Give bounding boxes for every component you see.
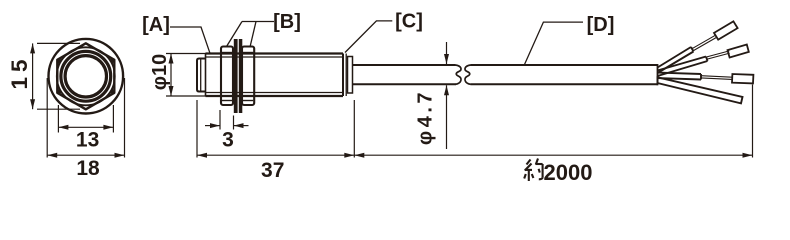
- dim 18 dimension line: [47, 154, 124, 156]
- dim 3 arrow right-pointing: [210, 123, 220, 128]
- dim 15 arrow down: [30, 99, 35, 109]
- dim 2000 arrow right: [743, 153, 753, 158]
- front view barrel ring inner circle: [65, 56, 106, 97]
- dim phi4.7 upper line: [446, 42, 448, 64]
- dim 3 extension lines: [219, 110, 221, 130]
- dim 37 dimension line: [197, 154, 354, 156]
- label B leader horizontal: [242, 21, 274, 23]
- wire 2 insulation: [658, 57, 708, 77]
- dim 13 arrow left: [58, 125, 68, 130]
- label D leader: [525, 22, 584, 64]
- front view barrel ring outer circle: [61, 51, 111, 101]
- wire 2 ferrule: [728, 45, 749, 58]
- wire 4 insulation: [658, 77, 743, 103]
- cable break end curl (segment 1): [456, 65, 462, 84]
- wire 1 conductor: [692, 35, 716, 51]
- svg-text:[D]: [D]: [587, 14, 615, 36]
- dim phi4.7 lower line: [446, 85, 448, 149]
- svg-text:[B]: [B]: [273, 11, 301, 33]
- label B leader 2: [250, 22, 256, 48]
- dim 37 arrow left: [197, 153, 207, 158]
- dim 18 extension lines: [46, 78, 48, 158]
- wire 3 insulation: [658, 73, 702, 80]
- cable segment 1 bottom: [353, 83, 457, 85]
- kanji 約 (approx) hand-drawn: [524, 159, 542, 182]
- label A leader: [170, 27, 210, 53]
- svg-text:2000: 2000: [544, 160, 593, 185]
- svg-text:φ10: φ10: [149, 54, 171, 91]
- dim 13 arrow right: [103, 125, 113, 130]
- label B leader 1: [227, 22, 243, 47]
- dim 15 dimension line: [32, 43, 34, 109]
- dim 13 extension lines: [57, 105, 59, 133]
- dim phi10 extension lines: [166, 53, 206, 55]
- dim phi10 dimension line: [170, 54, 172, 97]
- dim phi4.7 arrow down: [444, 54, 449, 64]
- barrel OD bottom line: [206, 95, 344, 97]
- front view washer inner circle (chamfer circle): [57, 47, 115, 105]
- cable segment 2 bottom: [471, 83, 658, 85]
- front view nut corner chamfer wedges: [57, 59, 114, 94]
- svg-text:13: 13: [76, 129, 99, 152]
- wire 2 conductor: [707, 51, 730, 59]
- dim phi10 arrow up: [169, 54, 174, 64]
- dim phi4.7 arrow up: [444, 85, 449, 95]
- dim 37 / 2000 shared extension line: [353, 100, 355, 158]
- sensor cap (sensing face): [197, 59, 206, 92]
- sensor cap chamfer line: [200, 59, 202, 92]
- dim 15 arrow up: [30, 43, 35, 53]
- cable segment 2 top: [471, 64, 658, 66]
- svg-text:3: 3: [222, 129, 234, 152]
- front view washer outer circle: [49, 39, 124, 114]
- cable break start curl (segment 2): [465, 65, 471, 84]
- barrel right end cap: [342, 54, 344, 97]
- dim 2000 dimension line: [354, 154, 752, 156]
- dim 13 dimension line: [58, 126, 113, 128]
- wire 3 ferrule: [732, 74, 753, 83]
- cable sheath end: [657, 64, 659, 85]
- dim phi10 arrow down: [169, 86, 174, 96]
- dim 18 arrow right: [115, 153, 125, 158]
- barrel OD top line: [206, 52, 344, 54]
- hex nut 2 (side view): [242, 47, 254, 106]
- hex nut 1 (side view): [221, 47, 233, 106]
- dim 3 arrow left-pointing: [234, 123, 244, 128]
- svg-text:φ4.7: φ4.7: [415, 89, 437, 145]
- dim 2000 arrow left: [354, 153, 364, 158]
- svg-text:[C]: [C]: [395, 11, 423, 33]
- svg-text:37: 37: [261, 159, 284, 182]
- toothed washer 1: [234, 40, 237, 113]
- wire 1 insulation: [658, 47, 694, 73]
- svg-text:18: 18: [76, 157, 100, 180]
- dim 3 dimension line right: [234, 125, 249, 127]
- cable gland collar: [348, 57, 353, 94]
- dim 2000 extension line right: [752, 85, 754, 158]
- label C leader: [345, 21, 392, 53]
- barrel thread root top line: [206, 56, 344, 58]
- wire 1 ferrule: [714, 21, 738, 39]
- svg-text:[A]: [A]: [142, 14, 170, 36]
- dim 15 extension lines: [37, 42, 80, 44]
- front view hex nut: [57, 43, 114, 109]
- barrel left end line: [205, 54, 207, 97]
- dim 37 extension line left: [196, 100, 198, 158]
- wire 3 conductor: [701, 76, 732, 80]
- dim 3 dimension line left: [205, 125, 220, 127]
- dim 37 arrow right: [344, 153, 354, 158]
- barrel thread root bottom line: [206, 92, 344, 94]
- svg-text:15: 15: [7, 54, 32, 89]
- toothed washer 2: [239, 40, 242, 113]
- cable segment 1 top: [353, 64, 456, 66]
- dim 18 arrow left: [47, 153, 57, 158]
